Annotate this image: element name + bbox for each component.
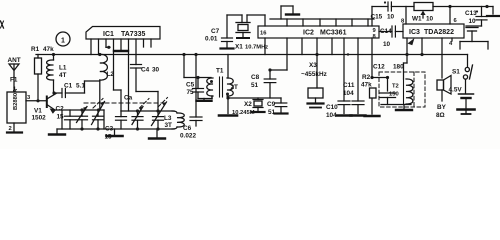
varactor cap C3 15 [97, 110, 99, 116]
wire T2 bottom rail [381, 104, 411, 106]
capacitor C5 75 [196, 76, 199, 79]
ground far right [492, 7, 494, 15]
IC1 pin 7 wire [135, 39, 137, 65]
node W1 out [448, 5, 451, 8]
svg-text:10: 10 [469, 18, 477, 25]
wire tank bottom rail [57, 128, 174, 130]
node T1 secondary bottom [226, 96, 229, 99]
IC2 pin4 wire [331, 38, 333, 55]
IC1 pin 2 wire [98, 39, 100, 55]
svg-text:T1: T1 [216, 68, 224, 75]
svg-text:IC3: IC3 [409, 29, 420, 36]
node bus IC3 pin1 [405, 53, 408, 56]
inductor L3 3T [172, 111, 177, 113]
svg-text:R2: R2 [362, 74, 371, 81]
svg-text:C1: C1 [64, 83, 73, 90]
svg-text:0.01: 0.01 [205, 36, 218, 43]
wire tank2 top [121, 110, 174, 112]
node tank1 trim top [80, 108, 83, 111]
svg-text:S1: S1 [452, 69, 460, 76]
capacitor C15 10 [372, 6, 388, 8]
svg-text:47k: 47k [43, 46, 54, 53]
svg-text:104: 104 [326, 112, 337, 119]
gang dashed line Ca [84, 102, 168, 104]
IC2 pin1 wire [286, 38, 288, 70]
op-amp IC1 TA7335 [86, 27, 160, 40]
IC1 pin 9 stub [150, 39, 152, 47]
wire loop right [460, 41, 488, 43]
op-amp IC3 TDA2822 [403, 24, 464, 38]
wire IC2 pin11 up [371, 7, 373, 27]
svg-text:W1: W1 [412, 16, 422, 23]
svg-text:0.022: 0.022 [180, 133, 196, 140]
ground T1 [227, 98, 229, 114]
svg-text:C8: C8 [251, 74, 260, 81]
IC1 pin 1 wire [90, 39, 92, 55]
node T2 feed [386, 76, 389, 79]
potentiometer W1 10 [414, 3, 433, 11]
ground under IC1 pin5 [114, 50, 128, 52]
svg-text:10: 10 [387, 14, 395, 21]
svg-text:C15: C15 [371, 14, 383, 21]
svg-text:Ca: Ca [124, 95, 133, 102]
svg-text:C7: C7 [211, 28, 220, 35]
node bus-T1 [182, 53, 185, 56]
wire T1 left bottom [211, 96, 213, 99]
svg-text:C6: C6 [183, 125, 192, 132]
svg-text:B2880A: B2880A [13, 88, 19, 110]
capacitor C4 30 [131, 64, 142, 66]
node bus pin3 [315, 53, 318, 56]
node bus-L2 [98, 53, 101, 56]
node osc tank feed [156, 109, 159, 112]
trimmer cap CT2 [137, 111, 139, 117]
IC2 pin3 wire [316, 38, 318, 55]
wire X2 node [228, 97, 281, 99]
IC1 pin 8 stub [143, 39, 145, 47]
svg-text:L1: L1 [59, 65, 67, 72]
IC1 pin 4 wire [113, 39, 115, 90]
svg-text:51: 51 [251, 82, 259, 89]
node IC1 pin3-4 [107, 46, 110, 49]
wire R2 to C12 [372, 77, 388, 79]
IC3 input arrow [408, 38, 415, 45]
wire tank1 right [103, 110, 105, 129]
IC1 pin 3 wire [105, 39, 107, 47]
svg-text:L3: L3 [164, 115, 172, 122]
svg-text:2T: 2T [231, 84, 239, 91]
svg-text:2: 2 [9, 126, 12, 132]
inductor L1 4T [53, 55, 55, 61]
wire main bus [36, 54, 468, 56]
crystal X1 10.7MHz [236, 22, 250, 24]
ground tank rail center [114, 129, 116, 135]
svg-text:TA7335: TA7335 [121, 31, 145, 38]
svg-text:R1: R1 [31, 46, 40, 53]
node bus-L1 [52, 53, 55, 56]
scan speck left edge [1, 21, 4, 28]
svg-text:C11: C11 [343, 82, 355, 89]
wire C7 to X1 [227, 14, 242, 16]
IC3 pin1 wire [406, 38, 408, 63]
svg-text:C14: C14 [380, 28, 392, 35]
svg-text:4.5V: 4.5V [449, 87, 463, 94]
IC2 pin6 wire C10 [357, 38, 359, 101]
capacitor C14 10 [379, 31, 392, 33]
svg-text:ANT: ANT [8, 57, 21, 64]
IC2 pin0 wire [264, 38, 266, 55]
node tank1 bottom b [96, 127, 99, 130]
capacitor C6 0.022 [194, 53, 197, 56]
IC3 pin3 wire speaker feed [441, 38, 443, 78]
svg-text:1: 1 [61, 37, 65, 44]
speaker BY 8ohm [437, 80, 444, 90]
IC3 pin2 wire [421, 38, 423, 55]
wire tank1 left [61, 110, 63, 129]
ground T2 [403, 105, 405, 109]
svg-text:X2: X2 [244, 101, 252, 108]
node bus small [347, 53, 349, 55]
capacitor C1 5.1 [54, 92, 62, 94]
svg-text:C4: C4 [141, 67, 150, 74]
svg-text:~455kHz: ~455kHz [301, 71, 327, 78]
svg-text:4T: 4T [59, 72, 67, 79]
svg-text:C13: C13 [465, 10, 477, 17]
ground battery [458, 108, 475, 111]
svg-text:3T: 3T [165, 122, 173, 129]
trimmer cap CT1 [81, 110, 83, 116]
capacitor tank2 fixed [120, 111, 122, 117]
IC2 pin2 wire [301, 38, 303, 55]
svg-text:T2: T2 [392, 84, 399, 90]
IC2 top pin ticks [286, 19, 288, 26]
svg-text:75: 75 [187, 89, 195, 96]
svg-text:10: 10 [383, 41, 391, 48]
svg-text:C12: C12 [373, 64, 385, 71]
IC1 pin 5 wire [120, 39, 122, 50]
dashed box T2 [379, 72, 425, 107]
svg-text:V1: V1 [34, 108, 42, 115]
IC2 pin7 wire R2 [371, 38, 373, 78]
svg-text:IC1: IC1 [103, 31, 114, 38]
node L1-C1 [52, 91, 55, 94]
V1 emitter arrow [51, 109, 56, 113]
node tank2 trim top [136, 109, 139, 112]
node bus IC3 [420, 53, 423, 56]
battery 4.5V [465, 79, 467, 93]
svg-text:X1: X1 [235, 44, 243, 51]
svg-text:150: 150 [389, 92, 399, 98]
svg-text:C5: C5 [186, 82, 195, 89]
svg-text:C10: C10 [326, 104, 338, 111]
svg-text:10: 10 [426, 16, 434, 23]
svg-text:BY: BY [437, 104, 447, 111]
transistor V1 1502 [46, 97, 48, 108]
node C13 rail [485, 5, 488, 8]
node tank1 var top [97, 108, 100, 111]
wire tank1 top [56, 109, 105, 111]
capacitor C16 bump [280, 6, 282, 19]
svg-text:MC3361: MC3361 [320, 30, 347, 37]
svg-text:X3: X3 [309, 62, 317, 69]
IC1 pin 6 wire [128, 39, 130, 111]
wire X1 to pin16 [246, 15, 248, 23]
inductor L2 [100, 54, 108, 80]
wire IC2 top rail [270, 18, 374, 20]
node C8 top [268, 68, 271, 71]
svg-text:C9: C9 [267, 101, 276, 108]
wire T1 primary feed [183, 55, 185, 78]
svg-text:1502: 1502 [32, 115, 47, 122]
ground tank rail left [56, 129, 58, 133]
svg-text:C2: C2 [56, 106, 65, 113]
IC2 pin5 wire C11 [343, 38, 345, 101]
ground under F1 [7, 131, 22, 133]
wire T2 top [403, 63, 405, 79]
varactor tank2 [157, 111, 159, 117]
svg-text:16: 16 [260, 31, 267, 37]
svg-text:104: 104 [343, 90, 354, 97]
node R2 top [370, 76, 373, 79]
callout circle 1 [56, 32, 70, 46]
svg-text:180: 180 [393, 64, 404, 71]
node tank1 bottom a [80, 127, 83, 130]
node base junction [36, 99, 39, 102]
svg-text:30: 30 [152, 67, 160, 74]
svg-text:IC2: IC2 [303, 30, 314, 37]
svg-text:TDA2822: TDA2822 [424, 29, 454, 36]
wire to IC3 pin6 [449, 7, 451, 25]
svg-text:15: 15 [57, 114, 65, 121]
ground tank rail mid [156, 129, 158, 137]
svg-text:8Ω: 8Ω [436, 112, 445, 119]
wire IC3 pin8 up [405, 7, 407, 25]
node tank2 var bottom [136, 127, 139, 130]
capacitor C16 [466, 27, 478, 29]
op-amp IC2 MC3361 [258, 26, 379, 38]
